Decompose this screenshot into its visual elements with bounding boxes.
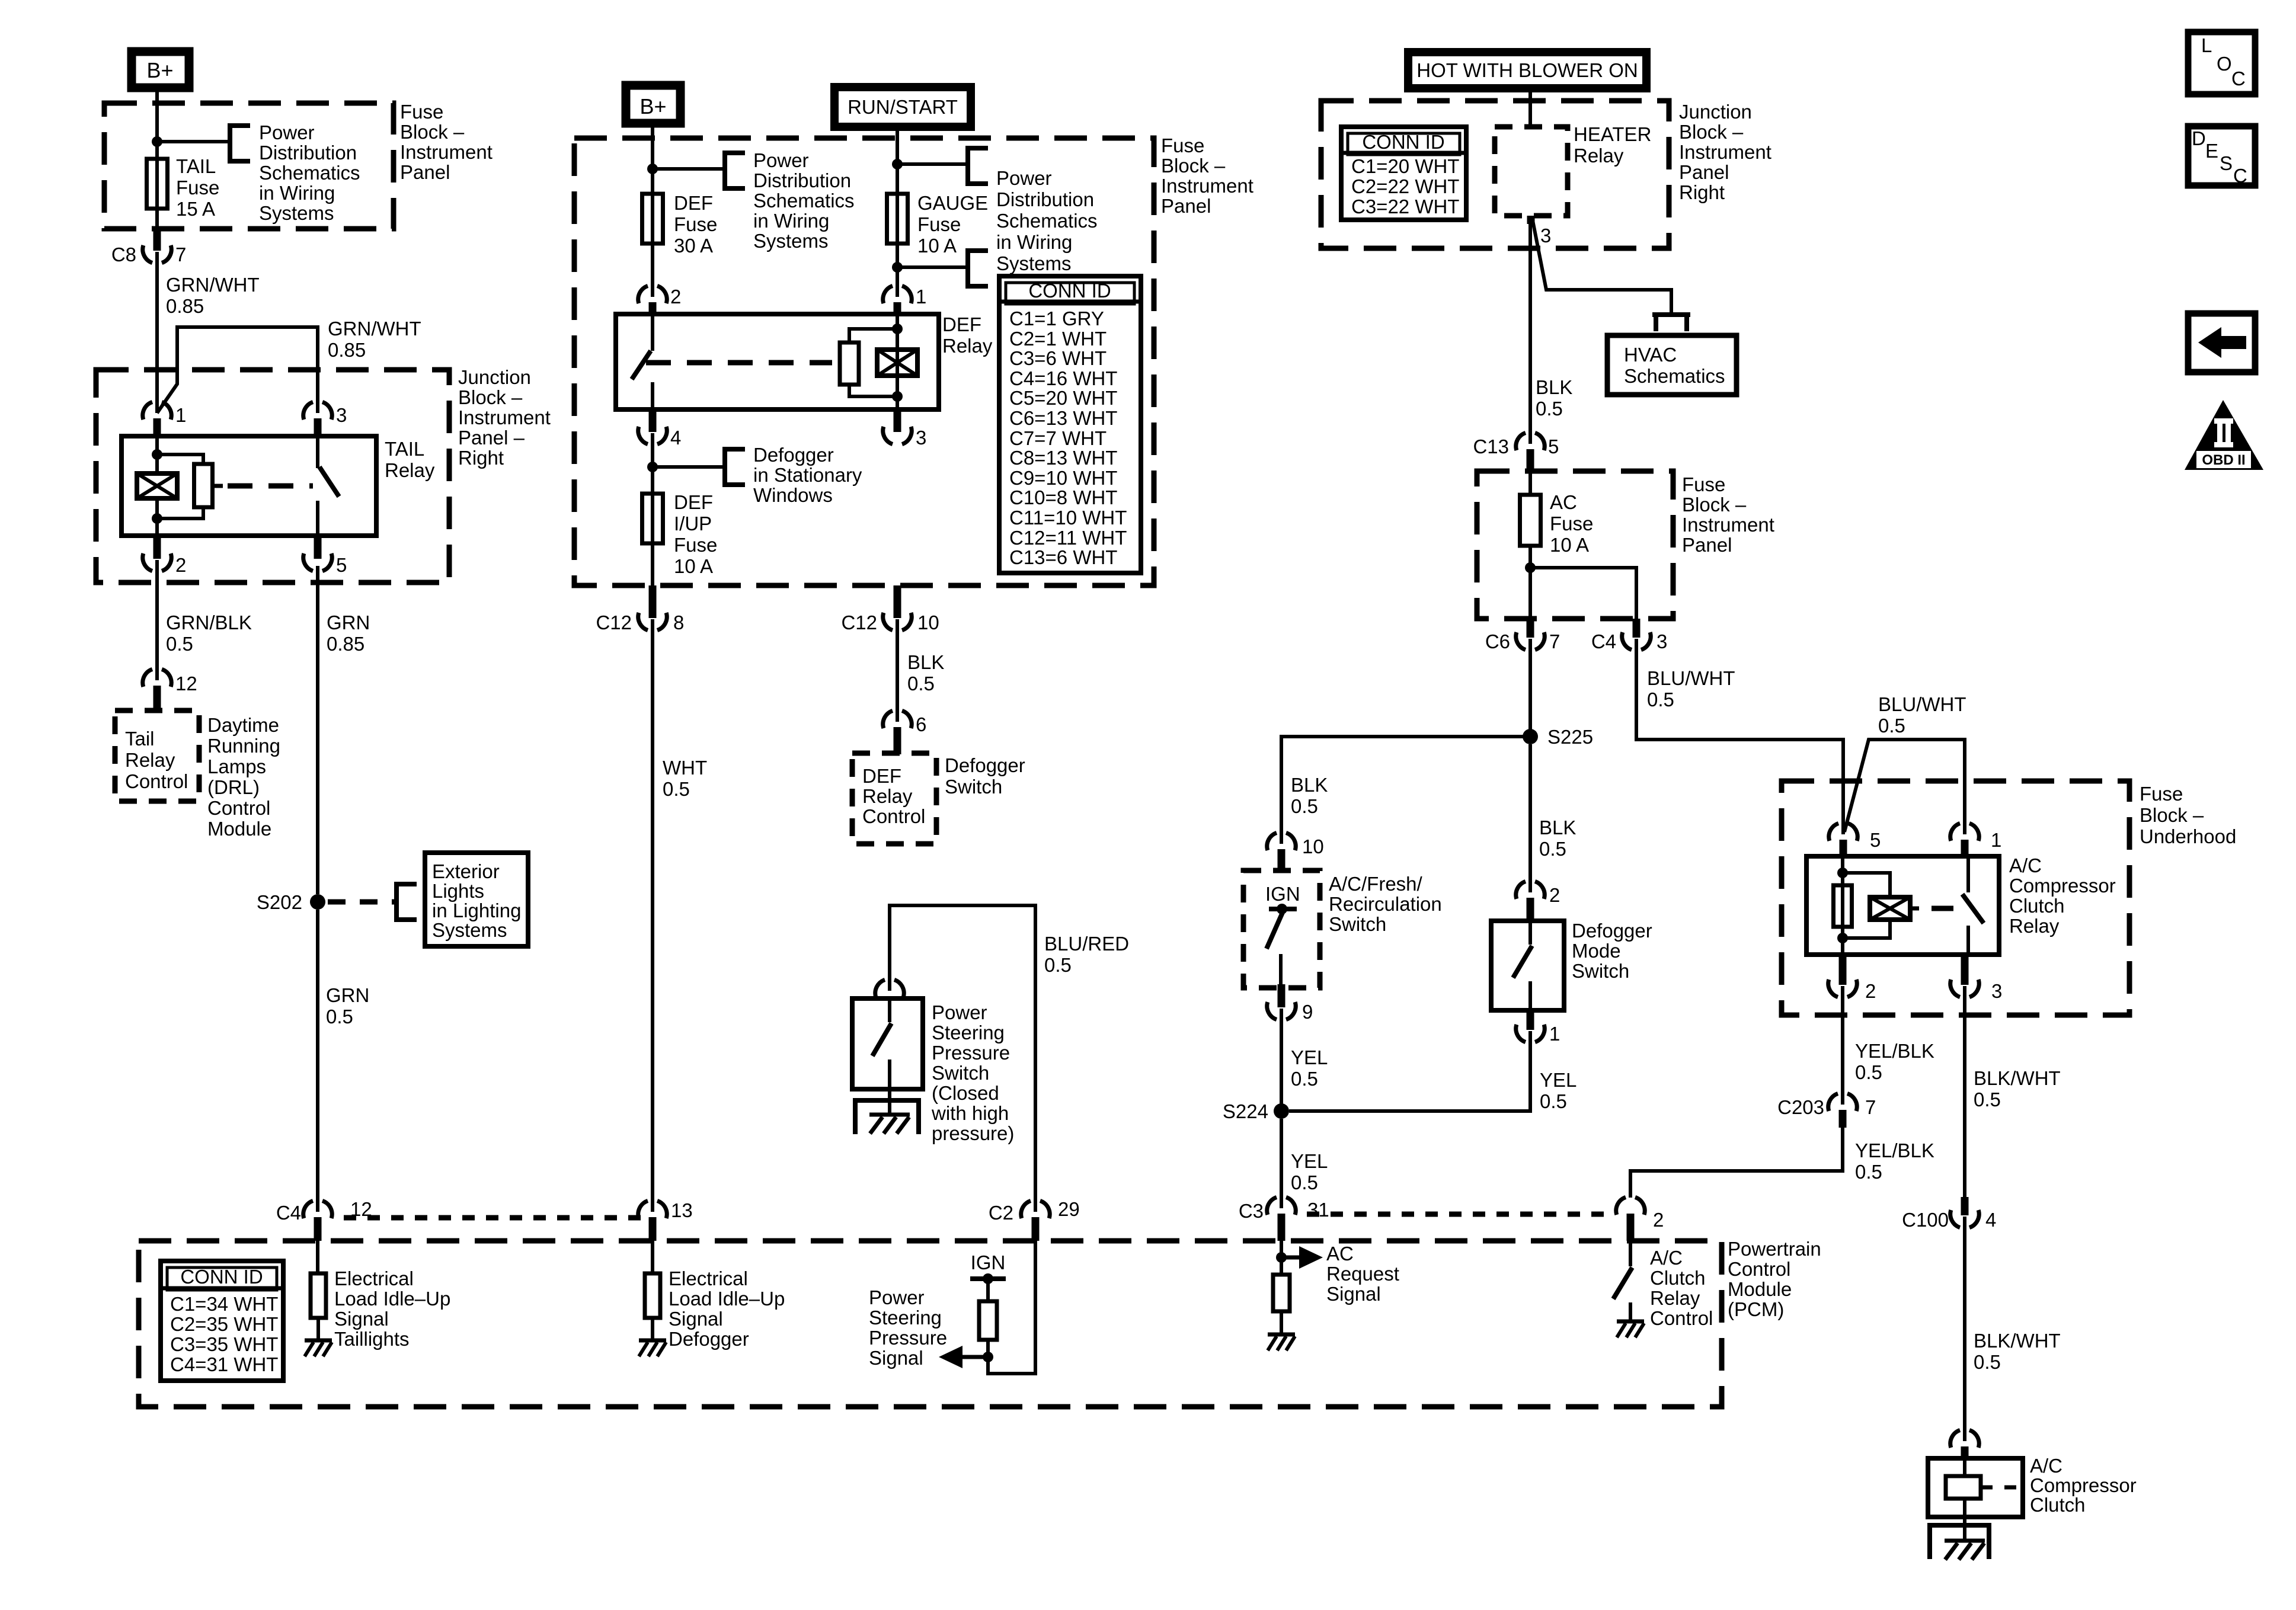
svg-text:Clutch: Clutch bbox=[1650, 1267, 1706, 1289]
resistor: Electrical Load Idle-Up Signal Defogger bbox=[651, 1241, 654, 1275]
svg-text:Control: Control bbox=[862, 805, 925, 827]
svg-text:WHT: WHT bbox=[663, 757, 707, 779]
svg-text:Systems: Systems bbox=[259, 202, 334, 224]
relay HEATER Relay (dashed box) bbox=[1495, 127, 1568, 216]
svg-text:Switch: Switch bbox=[1572, 960, 1629, 982]
svg-text:HEATER: HEATER bbox=[1574, 123, 1651, 145]
svg-text:DEF: DEF bbox=[674, 192, 713, 214]
power symbol RUN/START bbox=[834, 87, 971, 127]
svg-text:Steering: Steering bbox=[869, 1307, 942, 1329]
svg-text:0.5: 0.5 bbox=[1539, 838, 1566, 860]
node S202 (splice) bbox=[310, 894, 325, 910]
junction block - instrument panel - right (dashed box) bbox=[96, 370, 449, 582]
node (DEF coil bottom) bbox=[892, 391, 903, 402]
svg-text:Defogger: Defogger bbox=[753, 444, 834, 466]
svg-text:Relay: Relay bbox=[385, 459, 435, 481]
svg-text:0.5: 0.5 bbox=[1291, 795, 1318, 817]
connector: TAIL relay pin 1 bbox=[143, 402, 152, 420]
connector: DEF relay pin 1 bbox=[883, 286, 893, 303]
svg-text:(PCM): (PCM) bbox=[1728, 1298, 1784, 1320]
svg-text:7: 7 bbox=[1865, 1096, 1876, 1118]
svg-text:D: D bbox=[2192, 127, 2206, 149]
svg-text:C1=34 WHT: C1=34 WHT bbox=[170, 1293, 278, 1315]
svg-text:DEF: DEF bbox=[942, 313, 981, 335]
svg-text:GRN/WHT: GRN/WHT bbox=[166, 274, 260, 296]
svg-text:BLK: BLK bbox=[1539, 817, 1576, 838]
svg-text:C10=8 WHT: C10=8 WHT bbox=[1009, 486, 1117, 508]
wire YEL/BLK 0.5 C203 to PCM pin 2 bbox=[1630, 1128, 1843, 1198]
svg-text:Switch: Switch bbox=[1329, 913, 1386, 935]
wire BLK 0.5 S225 to defogger mode switch bbox=[1528, 744, 1532, 892]
fuse DEF I/UP Fuse 10 A bbox=[651, 495, 654, 545]
node (coil top) bbox=[152, 449, 162, 460]
svg-text:(Closed: (Closed bbox=[932, 1082, 999, 1104]
svg-text:S202: S202 bbox=[257, 891, 302, 913]
connector C6 pin 7 bbox=[1527, 619, 1534, 638]
svg-text:Defogger: Defogger bbox=[1572, 920, 1652, 942]
node: splice to reference (gauge bottom) bbox=[892, 262, 903, 273]
svg-text:Control: Control bbox=[1650, 1307, 1713, 1329]
svg-text:pressure): pressure) bbox=[932, 1122, 1014, 1144]
switch Defogger Mode Switch (box) bbox=[1491, 921, 1564, 1010]
svg-text:C7=7 WHT: C7=7 WHT bbox=[1009, 427, 1107, 449]
wire: to power distribution reference bracket bbox=[157, 140, 230, 143]
connector: compressor relay pin 3 bbox=[1961, 955, 1969, 985]
svg-text:Control: Control bbox=[125, 770, 188, 792]
svg-text:Fuse: Fuse bbox=[674, 534, 717, 556]
svg-text:Block –: Block – bbox=[1679, 121, 1744, 143]
svg-text:Running: Running bbox=[207, 735, 280, 757]
svg-text:0.5: 0.5 bbox=[1878, 715, 1905, 737]
node IGN tap bbox=[983, 1273, 993, 1284]
connector pin 2 (defogger mode switch) bbox=[1516, 881, 1526, 899]
svg-text:BLK: BLK bbox=[907, 651, 944, 673]
node (coil bottom) bbox=[152, 513, 162, 524]
svg-text:Block –: Block – bbox=[1161, 155, 1226, 177]
dashed link S202 to exterior lights reference bbox=[328, 900, 395, 905]
svg-text:BLU/WHT: BLU/WHT bbox=[1647, 667, 1735, 689]
svg-text:Exterior: Exterior bbox=[432, 860, 500, 882]
arrow: power steering pressure signal (points left) bbox=[960, 1355, 988, 1359]
svg-text:with high: with high bbox=[931, 1102, 1009, 1124]
module Powertrain Control Module PCM (dashed box) bbox=[139, 1241, 1722, 1407]
svg-text:Request: Request bbox=[1326, 1263, 1399, 1285]
svg-text:Systems: Systems bbox=[432, 919, 507, 941]
svg-text:Powertrain: Powertrain bbox=[1728, 1238, 1821, 1260]
icon OBD II triangle bbox=[2185, 400, 2263, 470]
wire: PCM power steering signal loop bbox=[988, 1241, 1035, 1374]
svg-text:Daytime: Daytime bbox=[207, 714, 279, 736]
dotted separator line (PCM connector row) bbox=[344, 1215, 646, 1221]
wire GRN 0.5 from S202 bbox=[316, 910, 319, 1212]
wire BLK/WHT 0.5 C100 to compressor clutch bbox=[1963, 1217, 1966, 1441]
relay coil (crossed box, compressor) bbox=[1843, 873, 1890, 898]
svg-text:0.5: 0.5 bbox=[1974, 1351, 2001, 1373]
svg-text:Relay: Relay bbox=[2009, 915, 2060, 937]
reference bracket: Exterior Lights bbox=[396, 884, 417, 920]
switch contact (power steering) bbox=[888, 998, 891, 1022]
svg-text:Fuse: Fuse bbox=[176, 177, 219, 199]
svg-text:29: 29 bbox=[1058, 1198, 1080, 1220]
svg-text:Power: Power bbox=[753, 149, 809, 171]
connector pin 10 (recirc switch) bbox=[1267, 833, 1277, 850]
clutch coil bbox=[1963, 1458, 1966, 1477]
node (relay bottom) bbox=[1837, 933, 1848, 943]
connector C3 pin 31 (PCM) bbox=[1267, 1197, 1277, 1215]
svg-text:Block –: Block – bbox=[2140, 804, 2204, 826]
wire: actuator stub (compressor) bbox=[1910, 907, 1919, 911]
svg-text:TAIL: TAIL bbox=[176, 155, 216, 177]
svg-text:0.85: 0.85 bbox=[327, 633, 364, 655]
connector C12 pin 10 bbox=[894, 585, 901, 618]
svg-text:Right: Right bbox=[1679, 181, 1725, 203]
wire YEL 0.5 pin 1 to S224 bbox=[1289, 1031, 1530, 1111]
svg-text:3: 3 bbox=[336, 404, 347, 426]
wire YEL/BLK 0.5 pin 2 to C203 bbox=[1841, 986, 1844, 1105]
reference bracket: Power Distribution (DEF) bbox=[725, 153, 745, 188]
svg-text:(DRL): (DRL) bbox=[207, 776, 260, 798]
wire: TAIL fuse to connector C8 bbox=[155, 207, 159, 230]
svg-text:S: S bbox=[2220, 152, 2233, 174]
svg-text:C: C bbox=[2231, 68, 2246, 89]
svg-text:15 A: 15 A bbox=[176, 198, 215, 220]
power symbol HOT WITH BLOWER ON bbox=[1408, 52, 1646, 88]
svg-text:DEF: DEF bbox=[674, 491, 713, 513]
connector: DEF relay pin 2 bbox=[638, 286, 648, 303]
connector pin 2 (A/C clutch relay control, PCM) bbox=[1616, 1197, 1626, 1215]
svg-text:Load Idle–Up: Load Idle–Up bbox=[334, 1288, 450, 1310]
svg-text:IGN: IGN bbox=[1265, 883, 1300, 905]
connector pin 1 (defogger mode switch) bbox=[1527, 1010, 1534, 1030]
wire: branch to C4 pin 3 bbox=[1530, 568, 1636, 620]
connector pin 13 (PCM) bbox=[638, 1201, 648, 1218]
svg-text:10 A: 10 A bbox=[1550, 534, 1589, 556]
svg-text:3: 3 bbox=[916, 427, 926, 449]
wire YEL 0.5 S224 to C3 pin 31 bbox=[1280, 1119, 1283, 1208]
svg-text:2: 2 bbox=[1653, 1209, 1664, 1231]
resistor (AC request) bbox=[1273, 1275, 1290, 1311]
relay DEF Relay (box) bbox=[616, 314, 939, 409]
actuator dashed line (compressor) bbox=[1932, 906, 1953, 911]
ground (compressor clutch case) bbox=[1963, 1517, 1966, 1541]
svg-text:Instrument: Instrument bbox=[1161, 175, 1253, 197]
svg-text:Signal: Signal bbox=[1326, 1283, 1381, 1305]
svg-text:7: 7 bbox=[1549, 630, 1560, 652]
svg-text:Fuse: Fuse bbox=[1161, 135, 1204, 156]
relay A/C Compressor Clutch Relay (box) bbox=[1806, 856, 1999, 955]
connector C4 pin 3 bbox=[1633, 619, 1641, 638]
connector pin 6 (defogger switch) bbox=[883, 710, 893, 728]
ground (A/C clutch relay control) bbox=[1617, 1320, 1644, 1324]
svg-text:Instrument: Instrument bbox=[1682, 514, 1774, 536]
svg-text:4: 4 bbox=[670, 427, 681, 449]
switch Power Steering Pressure Switch (box) bbox=[852, 998, 923, 1089]
fuse block - instrument panel (dashed box, center) bbox=[574, 138, 1154, 585]
svg-text:C2: C2 bbox=[989, 1202, 1013, 1224]
clutch actuator dashes bbox=[1981, 1486, 1993, 1490]
node (AC request tap) bbox=[1276, 1252, 1287, 1263]
svg-text:Lights: Lights bbox=[432, 880, 484, 902]
fuse block - instrument panel (dashed box, AC fuse) bbox=[1477, 471, 1673, 619]
svg-text:BLU/RED: BLU/RED bbox=[1044, 933, 1129, 955]
fuse block - underhood (dashed box) bbox=[1782, 781, 2129, 1015]
svg-text:HOT WITH BLOWER ON: HOT WITH BLOWER ON bbox=[1416, 59, 1638, 81]
node (signal tap) bbox=[983, 1352, 993, 1362]
resistor (DEF relay shunt) bbox=[849, 329, 897, 344]
ground (defogger idle-up) bbox=[639, 1339, 666, 1343]
wire BLK/WHT 0.5 pin 3 to C100 bbox=[1963, 986, 1966, 1198]
wire BLK 0.5 S225 to recirculation switch bbox=[1281, 737, 1530, 844]
module Tail Relay Control (dashed box) bbox=[115, 710, 199, 801]
svg-text:Fuse: Fuse bbox=[1550, 513, 1593, 534]
connector C100 pin 4 bbox=[1961, 1197, 1969, 1215]
node S225 (splice) bbox=[1523, 729, 1538, 744]
table CONN ID (junction block) bbox=[1341, 127, 1466, 220]
svg-text:BLU/WHT: BLU/WHT bbox=[1878, 693, 1966, 715]
svg-text:Instrument: Instrument bbox=[458, 406, 551, 428]
svg-text:L: L bbox=[2201, 34, 2212, 56]
svg-text:Block –: Block – bbox=[1682, 494, 1747, 516]
actuator dashed line bbox=[228, 484, 313, 489]
connector C13 pin 5 bbox=[1516, 433, 1526, 450]
connector (A/C compressor clutch) bbox=[1950, 1430, 1960, 1448]
svg-text:3: 3 bbox=[1657, 630, 1667, 652]
svg-text:C3=22 WHT: C3=22 WHT bbox=[1351, 196, 1459, 217]
fuse AC Fuse 10 A bbox=[1528, 471, 1532, 496]
svg-text:GAUGE: GAUGE bbox=[917, 192, 988, 214]
svg-text:C8=13 WHT: C8=13 WHT bbox=[1009, 447, 1117, 469]
svg-text:C203: C203 bbox=[1777, 1096, 1824, 1118]
fuse DEF Fuse 30 A bbox=[651, 195, 654, 245]
svg-text:E: E bbox=[2205, 140, 2218, 162]
wire: B+ to DEF fuse bbox=[651, 125, 654, 195]
svg-text:C3=35 WHT: C3=35 WHT bbox=[170, 1333, 278, 1355]
svg-text:Recirculation: Recirculation bbox=[1329, 893, 1442, 915]
svg-text:0.5: 0.5 bbox=[1974, 1089, 2001, 1110]
svg-text:BLK: BLK bbox=[1291, 774, 1328, 796]
connector C8 pin 7 bbox=[154, 229, 161, 251]
svg-text:Taillights: Taillights bbox=[334, 1328, 410, 1350]
svg-text:Power: Power bbox=[996, 167, 1052, 189]
svg-text:GRN: GRN bbox=[327, 612, 370, 633]
svg-text:Relay: Relay bbox=[942, 335, 993, 357]
reference bracket: Power Distribution (GAUGE bottom) bbox=[968, 251, 988, 286]
svg-text:Module: Module bbox=[207, 818, 271, 840]
reference bracket: Defogger in Stationary Windows bbox=[725, 449, 745, 485]
svg-text:C11=10 WHT: C11=10 WHT bbox=[1009, 507, 1127, 529]
svg-text:C100: C100 bbox=[1902, 1209, 1949, 1231]
svg-text:I/UP: I/UP bbox=[674, 513, 712, 534]
svg-text:Power: Power bbox=[869, 1286, 925, 1308]
svg-text:10 A: 10 A bbox=[917, 235, 957, 257]
svg-text:C4: C4 bbox=[276, 1202, 301, 1224]
svg-text:C6=13 WHT: C6=13 WHT bbox=[1009, 407, 1117, 429]
svg-text:Junction: Junction bbox=[458, 366, 531, 388]
svg-text:C3=6 WHT: C3=6 WHT bbox=[1009, 347, 1107, 369]
svg-text:1: 1 bbox=[1991, 829, 2001, 851]
reference bracket: Power Distribution Schematics bbox=[230, 126, 250, 161]
connector: TAIL relay pin 3 bbox=[303, 402, 313, 420]
svg-text:0.5: 0.5 bbox=[1647, 689, 1674, 710]
svg-text:Panel: Panel bbox=[1682, 534, 1732, 556]
wire BLK 0.5 down from pin 3 bbox=[1528, 224, 1532, 444]
switch: compressor relay contact bbox=[1966, 856, 1970, 892]
svg-text:1: 1 bbox=[175, 404, 186, 426]
svg-text:Fuse: Fuse bbox=[1682, 473, 1725, 495]
icon back-arrow box bbox=[2188, 313, 2255, 372]
wire GRN/BLK 0.5 from pin 2 bbox=[155, 560, 159, 680]
svg-text:C1=20 WHT: C1=20 WHT bbox=[1351, 155, 1459, 177]
svg-text:Relay: Relay bbox=[862, 785, 913, 807]
svg-text:0.5: 0.5 bbox=[1536, 398, 1563, 420]
svg-text:OBD II: OBD II bbox=[2202, 452, 2245, 468]
reference bracket: Power Distribution (GAUGE top) bbox=[968, 148, 988, 184]
svg-text:C5=20 WHT: C5=20 WHT bbox=[1009, 387, 1117, 409]
svg-text:Underhood: Underhood bbox=[2140, 825, 2236, 847]
svg-text:1: 1 bbox=[1549, 1023, 1560, 1045]
svg-text:6: 6 bbox=[916, 713, 926, 735]
wire BLK 0.5 from C12 pin 10 bbox=[896, 585, 899, 587]
ground (taillights idle-up) bbox=[305, 1339, 332, 1343]
svg-text:Steering: Steering bbox=[932, 1022, 1005, 1044]
svg-text:Load Idle–Up: Load Idle–Up bbox=[669, 1288, 785, 1310]
actuator dashed line (DEF relay) bbox=[646, 360, 832, 366]
svg-text:A/C: A/C bbox=[2030, 1455, 2062, 1477]
wire BLK 0.5 to S225 bbox=[1528, 639, 1532, 737]
svg-text:CONN ID: CONN ID bbox=[1362, 131, 1444, 153]
svg-text:in Wiring: in Wiring bbox=[996, 231, 1072, 253]
load A/C Compressor Clutch (box) bbox=[1928, 1458, 2023, 1517]
connector pin 12 (DRL module) bbox=[143, 669, 152, 687]
svg-text:Fuse: Fuse bbox=[917, 213, 961, 235]
svg-text:0.5: 0.5 bbox=[1540, 1090, 1567, 1112]
svg-text:3: 3 bbox=[1540, 225, 1551, 247]
svg-text:2: 2 bbox=[175, 554, 186, 576]
svg-text:9: 9 bbox=[1302, 1001, 1313, 1023]
wire: to connector C12 pin 8 bbox=[651, 543, 654, 587]
svg-text:5: 5 bbox=[1548, 436, 1559, 457]
svg-text:0.5: 0.5 bbox=[1291, 1172, 1318, 1193]
relay coil (crossed box) bbox=[137, 473, 177, 498]
wire: to reference bracket bbox=[653, 167, 725, 171]
wire: to bracket (gauge top) bbox=[897, 162, 968, 166]
connector: compressor relay pin 1 bbox=[1950, 823, 1960, 841]
svg-text:12: 12 bbox=[175, 673, 197, 694]
svg-text:Compressor: Compressor bbox=[2030, 1474, 2137, 1496]
svg-text:C4=16 WHT: C4=16 WHT bbox=[1009, 367, 1117, 389]
node: splice to reference bbox=[647, 164, 658, 174]
svg-text:in Stationary: in Stationary bbox=[753, 464, 862, 486]
svg-text:in Lighting: in Lighting bbox=[432, 900, 521, 921]
connector pin 9 (recirc switch) bbox=[1278, 984, 1285, 1007]
svg-text:Compressor: Compressor bbox=[2009, 875, 2116, 897]
connector C4 pin 12 (PCM) bbox=[303, 1201, 313, 1218]
svg-text:Pressure: Pressure bbox=[932, 1042, 1010, 1064]
svg-text:C4: C4 bbox=[1591, 630, 1616, 652]
svg-text:C12: C12 bbox=[596, 612, 632, 633]
svg-text:3: 3 bbox=[1991, 980, 2002, 1002]
svg-text:C13: C13 bbox=[1473, 436, 1509, 457]
svg-text:Distribution: Distribution bbox=[259, 142, 357, 164]
svg-text:Switch: Switch bbox=[932, 1062, 989, 1084]
svg-text:YEL: YEL bbox=[1540, 1069, 1576, 1091]
node (DEF coil top) bbox=[892, 324, 903, 334]
svg-text:Clutch: Clutch bbox=[2009, 895, 2065, 917]
node (relay top) bbox=[1837, 868, 1848, 878]
svg-text:C12=11 WHT: C12=11 WHT bbox=[1009, 527, 1127, 549]
svg-text:C: C bbox=[2233, 165, 2247, 187]
connector C12 pin 8 bbox=[649, 585, 657, 618]
connector: DEF relay pin 4 bbox=[649, 409, 657, 432]
svg-text:Fuse: Fuse bbox=[2140, 783, 2183, 805]
wire GRN 0.85 from pin 5 bbox=[316, 566, 319, 894]
connector: DEF relay pin 3 bbox=[894, 409, 901, 432]
junction block - instrument panel right (dashed box, top right) bbox=[1321, 101, 1669, 248]
svg-text:0.5: 0.5 bbox=[663, 778, 690, 800]
svg-text:CONN ID: CONN ID bbox=[180, 1266, 263, 1288]
svg-text:C9=10 WHT: C9=10 WHT bbox=[1009, 467, 1117, 489]
switch A/C/Fresh/Recirculation (dashed box) bbox=[1243, 870, 1320, 988]
switch DEF Relay Control / Defogger Switch (dashed box) bbox=[852, 753, 936, 844]
svg-text:0.5: 0.5 bbox=[907, 673, 935, 694]
svg-text:0.5: 0.5 bbox=[1855, 1161, 1882, 1183]
connector C2 pin 29 (PCM) bbox=[1021, 1201, 1031, 1218]
svg-text:1: 1 bbox=[916, 286, 926, 308]
wire WHT 0.5 down to PCM pin 13 bbox=[651, 619, 654, 1212]
node: AC fuse output splice bbox=[1525, 562, 1536, 573]
connector: TAIL relay pin 5 bbox=[314, 536, 322, 559]
svg-text:Pressure: Pressure bbox=[869, 1327, 947, 1349]
svg-text:B+: B+ bbox=[639, 94, 666, 119]
svg-text:Panel: Panel bbox=[1161, 195, 1211, 217]
svg-text:Systems: Systems bbox=[996, 252, 1072, 274]
connector C203 pin 7 bbox=[1828, 1093, 1838, 1111]
switch: DEF relay contact bbox=[651, 314, 654, 351]
svg-text:Junction: Junction bbox=[1679, 101, 1752, 123]
svg-text:Signal: Signal bbox=[869, 1347, 923, 1369]
reference box Exterior Lights in Lighting Systems bbox=[425, 853, 528, 946]
svg-text:HVAC: HVAC bbox=[1624, 344, 1677, 366]
wire: HOT feed into heater relay bbox=[1528, 88, 1532, 128]
svg-text:in Wiring: in Wiring bbox=[753, 210, 829, 232]
svg-text:Schematics: Schematics bbox=[1624, 365, 1725, 387]
svg-text:B+: B+ bbox=[146, 58, 173, 82]
svg-text:AC: AC bbox=[1326, 1243, 1354, 1265]
svg-text:CONN ID: CONN ID bbox=[1028, 280, 1111, 302]
svg-text:Electrical: Electrical bbox=[669, 1267, 748, 1289]
svg-text:BLK: BLK bbox=[1536, 376, 1572, 398]
wire: RUN/START to GAUGE fuse bbox=[896, 125, 899, 195]
svg-text:Mode: Mode bbox=[1572, 940, 1621, 962]
svg-text:C2=35 WHT: C2=35 WHT bbox=[170, 1313, 278, 1335]
svg-text:YEL/BLK: YEL/BLK bbox=[1855, 1040, 1934, 1062]
switch contact (recirc) bbox=[1277, 904, 1287, 914]
svg-text:IGN: IGN bbox=[971, 1251, 1006, 1273]
wire YEL 0.5 pin 9 to S224 bbox=[1280, 1009, 1283, 1111]
svg-text:S225: S225 bbox=[1547, 726, 1593, 748]
svg-text:2: 2 bbox=[1865, 980, 1876, 1002]
svg-text:7: 7 bbox=[175, 244, 186, 265]
svg-text:Power: Power bbox=[259, 121, 315, 143]
svg-text:BLK/WHT: BLK/WHT bbox=[1974, 1067, 2061, 1089]
svg-text:5: 5 bbox=[1870, 829, 1881, 851]
svg-text:Distribution: Distribution bbox=[996, 188, 1094, 210]
svg-text:Right: Right bbox=[458, 447, 504, 469]
node S224 (splice) bbox=[1274, 1103, 1289, 1119]
svg-text:C3: C3 bbox=[1239, 1200, 1264, 1222]
svg-text:GRN/BLK: GRN/BLK bbox=[166, 612, 252, 633]
wire: branch to HVAC schematics bbox=[1533, 220, 1671, 313]
